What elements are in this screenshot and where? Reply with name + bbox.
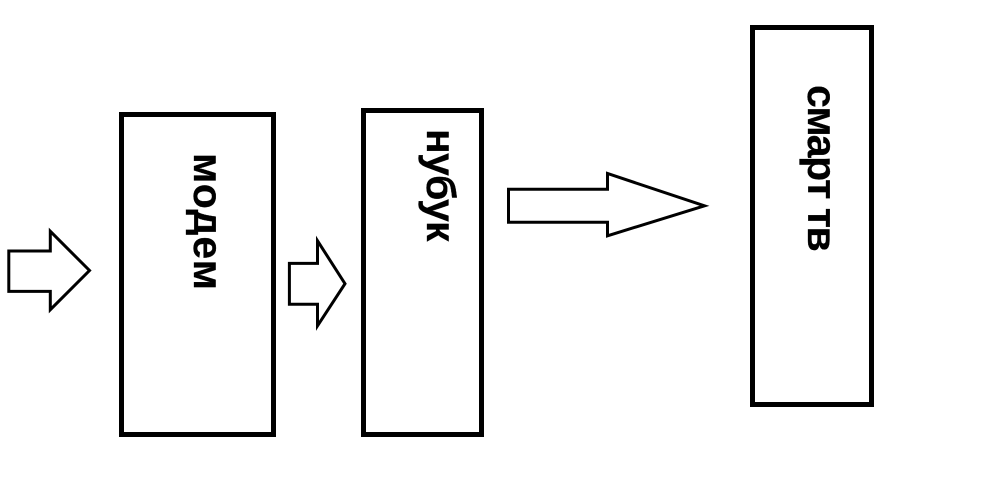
arrow into модем <box>9 231 90 309</box>
label модем <box>187 153 228 291</box>
box нубук <box>361 108 484 438</box>
arrow модем to нубук <box>289 241 345 326</box>
label смарт тв <box>801 85 842 250</box>
box модем <box>119 112 276 437</box>
arrow нубук to смарт тв <box>509 174 705 236</box>
label нубук <box>420 129 461 241</box>
box смарт тв <box>750 25 875 407</box>
